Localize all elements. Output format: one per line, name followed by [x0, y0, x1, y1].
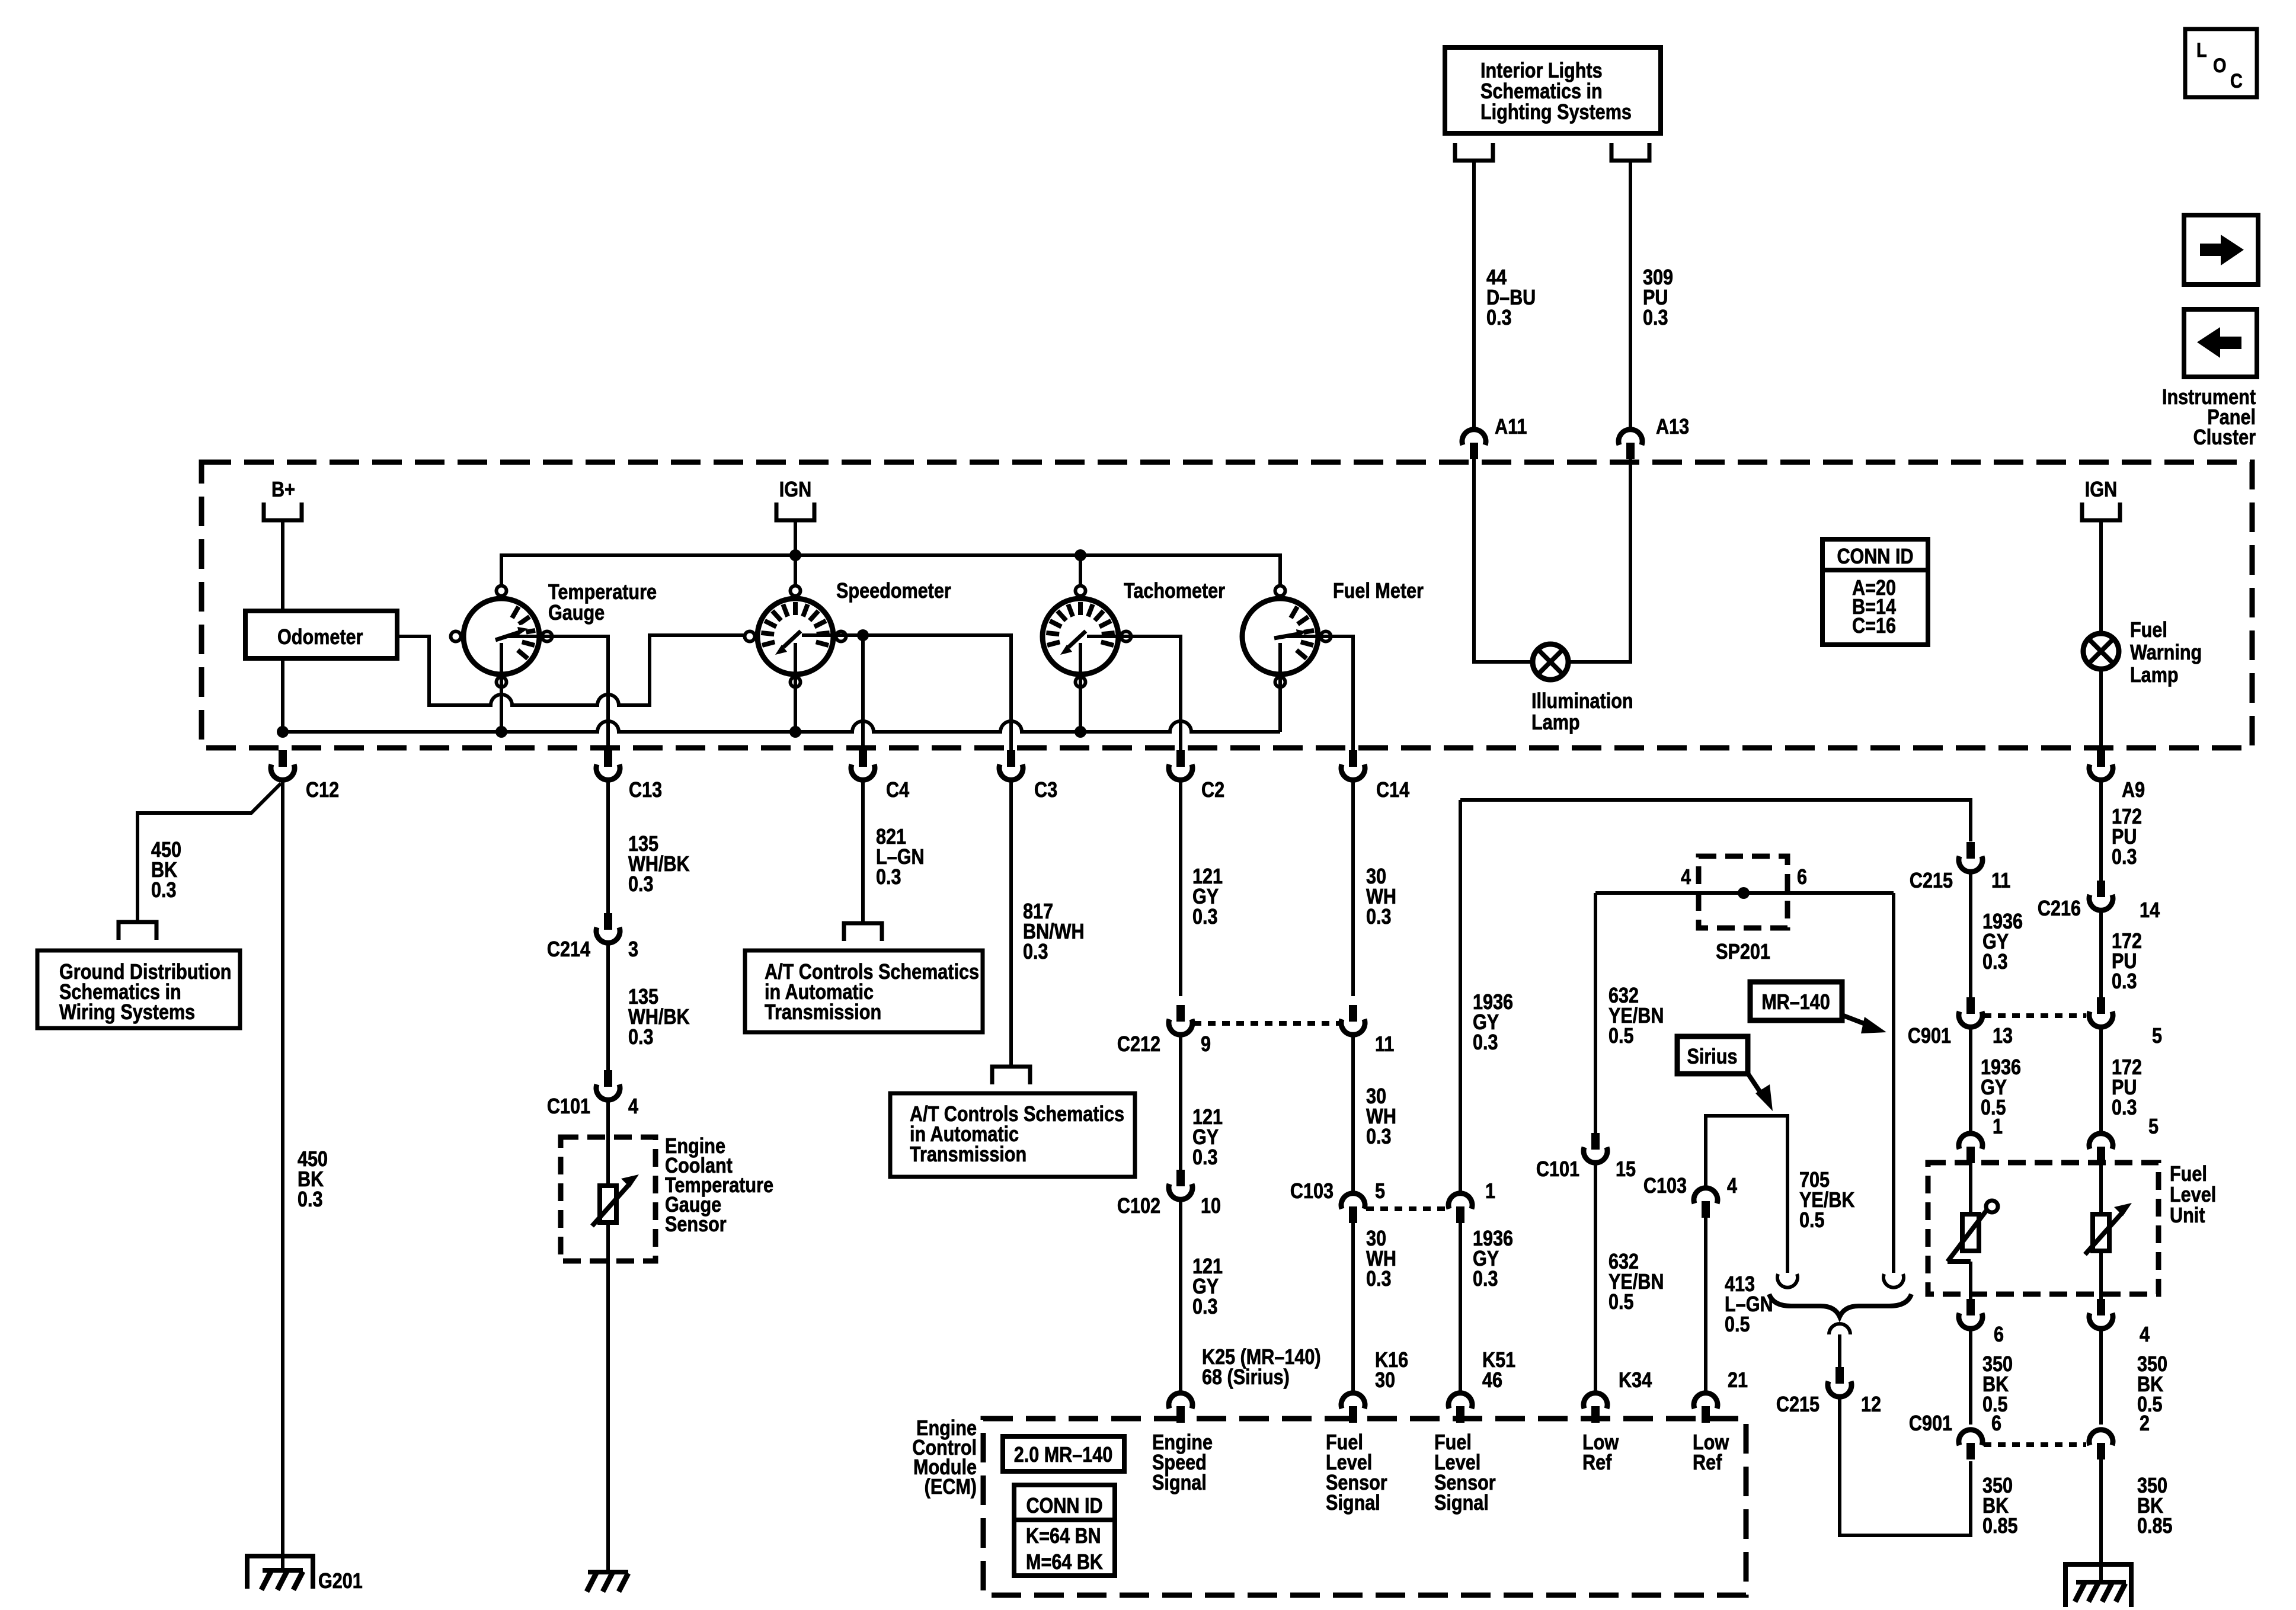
svg-text:Lamp: Lamp [1531, 711, 1580, 735]
svg-text:0.3: 0.3 [1366, 1267, 1392, 1291]
label Fuel Level Unit [2170, 1163, 2216, 1228]
svg-text:G201: G201 [318, 1570, 363, 1593]
label Fuel Level Sensor Signal (K51) [1434, 1431, 1496, 1515]
LOC legend box [2185, 29, 2257, 97]
wire SP201 pin 4 branch to C101 pin 15 [1594, 893, 1597, 1133]
label 135 WH/BK 0.3 (upper) [628, 833, 690, 897]
label 30 WH 0.3 (upper) [1366, 865, 1396, 929]
box A/T Controls Schematics in Automatic Transmission (1) [745, 950, 983, 1032]
svg-text:21: 21 [1728, 1369, 1748, 1393]
label 1936 GY 0.5 [1981, 1056, 2021, 1120]
speedometer [745, 586, 846, 687]
svg-text:0.3: 0.3 [1192, 1146, 1218, 1170]
svg-text:46: 46 [1482, 1369, 1502, 1393]
svg-text:SP201: SP201 [1716, 940, 1770, 964]
svg-text:A11: A11 [1495, 415, 1527, 439]
svg-text:Ref: Ref [1582, 1451, 1612, 1475]
wire coolant sensor to ground [606, 1222, 610, 1572]
svg-text:Fuel: Fuel [2130, 619, 2167, 642]
svg-text:A9: A9 [2122, 779, 2145, 802]
connector C103 pin 4 [1643, 1174, 1738, 1218]
wire fuel meter right terminal to C14 [1287, 636, 1353, 750]
label 350 BK 0.5 (right) [2137, 1353, 2167, 1417]
label 705 YE/BK 0.5 [1799, 1169, 1854, 1233]
connector C13 [596, 750, 662, 802]
label 1936 GY 0.3 (lower) [1473, 1227, 1513, 1291]
wire tachometer bottom to bus [1079, 643, 1082, 732]
svg-text:0.3: 0.3 [1486, 306, 1512, 330]
wire SP201 horizontal (pin4 to pin6 branches) [1595, 887, 1894, 899]
connector C216 pin 14 [2038, 881, 2160, 923]
wire 11 to C103 pin 5 [1351, 1036, 1355, 1192]
svg-text:0.3: 0.3 [1982, 950, 2008, 974]
ECM pin K34 [1584, 1393, 1607, 1423]
svg-text:Signal: Signal [1152, 1471, 1207, 1495]
offpage stub left under Interior Lights box [1455, 143, 1493, 161]
svg-text:Lamp: Lamp [2130, 664, 2179, 687]
label 172 PU 0.3 (C901-5 run) [2112, 1056, 2142, 1120]
wire IGN bus to tachometer top [1079, 555, 1082, 584]
svg-text:A13: A13 [1656, 415, 1689, 439]
ECM pin K16 [1341, 1393, 1365, 1423]
connector C102 pin 10 [1117, 1170, 1221, 1218]
wire C103 pin 4 to ECM pin 21 [1704, 1218, 1707, 1392]
svg-text:IGN: IGN [2085, 478, 2117, 502]
svg-text:1: 1 [1485, 1180, 1495, 1204]
label 632 YE/BN 0.5 (upper) [1609, 984, 1664, 1048]
connector C2 [1169, 750, 1224, 802]
svg-text:(ECM): (ECM) [925, 1475, 977, 1499]
svg-text:6: 6 [1994, 1323, 2004, 1347]
connector C901 pin 6 [1909, 1412, 2001, 1459]
connector A11 [1462, 415, 1527, 459]
coolant temperature sensor element [592, 1174, 639, 1226]
svg-text:6: 6 [1797, 866, 1807, 889]
splice SP201 (dashed box) [1699, 856, 1787, 928]
label Low Ref (K34) [1582, 1431, 1619, 1475]
label K25 (MR-140) 68 (Sirius) [1202, 1346, 1321, 1390]
svg-text:C215: C215 [1910, 869, 1953, 893]
svg-text:0.3: 0.3 [628, 873, 654, 897]
wire C12 to G201 ground [281, 782, 284, 1570]
svg-text:C102: C102 [1117, 1195, 1160, 1218]
svg-text:MR–140: MR–140 [1761, 991, 1830, 1014]
wire into fuel level unit (left) [1969, 1163, 1972, 1214]
svg-text:9: 9 [1201, 1033, 1211, 1057]
wire sender left to pin 6 [1969, 1262, 1972, 1300]
label 450 BK 0.3 (branch) [151, 838, 181, 902]
svg-text:0.5: 0.5 [1609, 1291, 1634, 1314]
svg-text:Fuel Meter: Fuel Meter [1333, 580, 1424, 603]
svg-text:Wiring Systems: Wiring Systems [59, 1001, 195, 1025]
svg-text:2.0 MR–140: 2.0 MR–140 [1014, 1443, 1113, 1467]
svg-text:C215: C215 [1776, 1393, 1819, 1417]
connector C3 [999, 750, 1057, 802]
connector C901 pin 13 [1908, 997, 2013, 1048]
svg-text:0.3: 0.3 [2112, 846, 2137, 869]
right arrow box [2184, 215, 2258, 284]
wire SP201 pin 6 branch down [1892, 893, 1895, 1273]
connector C215 pin 12 [1776, 1367, 1881, 1417]
svg-text:C103: C103 [1290, 1180, 1334, 1204]
svg-text:0.3: 0.3 [876, 866, 901, 889]
ECM pin K51 [1448, 1393, 1472, 1423]
label K34 [1619, 1369, 1652, 1393]
label 817 BN/WH 0.3 [1023, 900, 1085, 964]
svg-text:B+: B+ [271, 478, 295, 502]
svg-text:0.5: 0.5 [1725, 1313, 1750, 1337]
svg-text:Gauge: Gauge [548, 601, 605, 625]
callout box MR-140 [1750, 982, 1886, 1033]
svg-text:0.3: 0.3 [298, 1188, 323, 1212]
svg-text:Temperature: Temperature [548, 581, 657, 604]
wire top horizontal to C103 pin 1 [1459, 800, 1462, 1192]
label Tachometer [1124, 580, 1225, 603]
box A/T Controls Schematics in Automatic Transmission (2) [890, 1093, 1135, 1177]
wire C13 to C214 [606, 782, 610, 913]
fuel meter [1242, 586, 1331, 687]
offpage stub right under Interior Lights box [1611, 143, 1649, 161]
wire C901-13 to fuel level unit pin [1969, 1029, 1972, 1132]
connector A13 [1619, 415, 1689, 459]
wire C216 to C901-5 [2099, 912, 2103, 997]
svg-text:0.5: 0.5 [1799, 1209, 1825, 1233]
wire temperature gauge right terminal to C13 [508, 636, 608, 750]
wire B+ to odometer and bus [281, 520, 284, 732]
svg-text:1: 1 [1993, 1115, 2003, 1139]
svg-text:Sirius: Sirius [1687, 1045, 1738, 1069]
wire C212 to C102 [1179, 1036, 1182, 1170]
svg-text:C=16: C=16 [1852, 614, 1896, 638]
svg-text:4: 4 [2140, 1323, 2150, 1347]
svg-text:0.3: 0.3 [1643, 306, 1668, 330]
splice wire end hook (705 lead) [1777, 1274, 1798, 1288]
offpage stub above A/T box 1 [844, 923, 882, 941]
dotted mate line C103 5-1 [1366, 1206, 1448, 1211]
label 172 PU 0.3 (A9 run) [2112, 805, 2142, 869]
illumination lamp [1533, 644, 1568, 680]
wire sender right to pin 4 [2099, 1251, 2103, 1300]
wire tachometer right terminal to C2 [1087, 636, 1181, 750]
svg-text:Ref: Ref [1693, 1451, 1722, 1475]
svg-text:0.3: 0.3 [1473, 1267, 1498, 1291]
wire A9 to C216 [2099, 782, 2103, 881]
wire speedometer right terminal to C4/C3 branch [802, 629, 1011, 750]
svg-text:C214: C214 [547, 938, 591, 962]
label 450 BK 0.3 (G201 run) [298, 1148, 328, 1212]
ground G201 [247, 1556, 363, 1593]
svg-text:3: 3 [628, 938, 638, 962]
svg-text:13: 13 [1993, 1025, 2013, 1048]
svg-text:C103: C103 [1643, 1174, 1687, 1198]
svg-text:0.3: 0.3 [1366, 1125, 1392, 1149]
svg-text:10: 10 [1201, 1195, 1221, 1218]
svg-text:Tachometer: Tachometer [1124, 580, 1225, 603]
svg-text:2: 2 [2140, 1412, 2150, 1436]
svg-text:0.3: 0.3 [2112, 1096, 2137, 1120]
svg-text:0.85: 0.85 [2137, 1515, 2173, 1538]
connector C101 pin 15 [1536, 1133, 1636, 1182]
label 350 BK 0.85 (right) [2137, 1474, 2173, 1538]
svg-text:C: C [2230, 69, 2243, 92]
svg-text:Speedometer: Speedometer [836, 580, 951, 603]
label 632 YE/BN 0.5 (lower) [1609, 1250, 1664, 1314]
wire C12 branch to ground distribution stub [137, 783, 281, 922]
svg-text:0.3: 0.3 [1473, 1031, 1498, 1055]
connector C901 pin 2 [2089, 1412, 2150, 1459]
wire C215-11 to C901-13 [1969, 873, 1972, 997]
label 821 L-GN 0.3 [876, 825, 925, 889]
wire fuel meter bottom to bus [1278, 643, 1282, 732]
svg-text:Sensor: Sensor [665, 1213, 727, 1237]
svg-text:IGN: IGN [779, 478, 811, 502]
svg-text:C101: C101 [547, 1095, 590, 1119]
wire fuel level signal horizontal run [1460, 800, 1971, 841]
label pin 21 [1728, 1369, 1748, 1393]
ECM CONN ID table [1014, 1485, 1115, 1576]
label Fuel Level Sensor Signal (K16) [1326, 1431, 1387, 1515]
svg-text:0.3: 0.3 [2112, 970, 2137, 994]
svg-text:0.3: 0.3 [151, 879, 177, 902]
svg-text:11: 11 [1375, 1033, 1394, 1057]
svg-text:C2: C2 [1201, 779, 1224, 802]
wire C3 to A/T stub 2 [1009, 782, 1013, 1067]
label fuel level unit pin 5 [2148, 1115, 2159, 1139]
box Ground Distribution Schematics in Wiring Systems [37, 950, 240, 1028]
svg-text:Warning: Warning [2130, 641, 2202, 665]
label 44 D-BU 0.3 [1486, 266, 1536, 330]
odometer box [245, 611, 397, 658]
svg-text:0.3: 0.3 [1192, 1295, 1218, 1319]
label Low Ref (21) [1693, 1431, 1729, 1475]
splice lead hook to C215-12 [1829, 1324, 1850, 1368]
label 121 GY 0.3 (C212-C102) [1192, 1106, 1223, 1170]
svg-text:O: O [2213, 54, 2226, 77]
svg-text:15: 15 [1616, 1158, 1636, 1182]
svg-text:C901: C901 [1908, 1025, 1951, 1048]
svg-text:Fuel: Fuel [2170, 1163, 2207, 1186]
wire fuel warning lamp to A9 [2099, 668, 2103, 750]
label K16 30 [1375, 1349, 1408, 1393]
connector A9 [2089, 750, 2145, 802]
ECM pin K25 [1169, 1393, 1192, 1423]
wire pin6 to C901-6 [1969, 1330, 1972, 1425]
svg-text:C3: C3 [1034, 779, 1057, 802]
svg-text:12: 12 [1861, 1393, 1881, 1417]
engine coolant temperature gauge sensor box (dashed) [561, 1137, 655, 1261]
power feed IGN (right) [2082, 478, 2120, 520]
label Illumination Lamp [1531, 690, 1633, 735]
wire C14 to C212 pin 11 [1351, 782, 1355, 996]
cluster CONN ID table [1822, 539, 1928, 645]
label 172 PU 0.3 (C216 run) [2112, 930, 2142, 994]
label 135 WH/BK 0.3 (lower) [628, 985, 690, 1049]
svg-text:C216: C216 [2038, 897, 2081, 921]
wire 44 D-BU from Interior Lights to A11 [1472, 161, 1476, 430]
connector C215 pin 11 [1910, 842, 2010, 893]
label Temperature Gauge [548, 581, 657, 625]
fuel warning lamp [2083, 633, 2119, 669]
svg-text:0.3: 0.3 [1023, 940, 1048, 964]
label 309 PU 0.3 [1643, 266, 1673, 330]
label Engine Coolant Temperature Gauge Sensor [665, 1135, 773, 1237]
svg-text:Lighting Systems: Lighting Systems [1480, 101, 1632, 124]
ground below C901 pin 2 [2065, 1564, 2131, 1607]
wire pin4 to C901-2 [2099, 1330, 2103, 1425]
svg-text:Transmission: Transmission [910, 1143, 1027, 1167]
instrument panel cluster boundary (dashed box) [202, 462, 2252, 748]
ground below coolant sensor [587, 1572, 628, 1592]
wire 1 to ECM K51 [1459, 1223, 1462, 1392]
label SP201 pin 4 [1681, 866, 1691, 889]
wire 309 PU from Interior Lights to A13 [1629, 161, 1632, 430]
svg-text:0.5: 0.5 [1609, 1025, 1634, 1048]
label Instrument Panel Cluster [2162, 386, 2256, 450]
svg-text:L: L [2196, 39, 2207, 62]
wire odometer to speedometer (hops temp-bottom and C13 wires) [397, 635, 745, 705]
fuel level sender element (right, with arrow) [2085, 1203, 2132, 1254]
wire C901-2 to ground [2099, 1459, 2103, 1582]
svg-text:Illumination: Illumination [1531, 690, 1633, 713]
wire C901-5 to fuel level unit [2099, 1029, 2103, 1132]
svg-text:30: 30 [1375, 1369, 1395, 1393]
callout box Sirius [1677, 1036, 1773, 1111]
wire IGN to fuel warning lamp [2099, 520, 2103, 635]
wire A11 to illumination lamp [1474, 459, 1534, 662]
label Fuel Warning Lamp [2130, 619, 2202, 687]
ECM pin 21 [1694, 1393, 1718, 1423]
svg-text:Interior Lights: Interior Lights [1480, 59, 1603, 83]
label 413 L-GN 0.5 [1725, 1273, 1773, 1337]
dotted mate line C212 9-11 [1194, 1021, 1340, 1026]
connector fuel level unit pin 6 (below box) [1959, 1299, 2004, 1347]
dotted mate line C901 13-5 [1984, 1013, 2086, 1018]
svg-text:68 (Sirius): 68 (Sirius) [1202, 1366, 1290, 1390]
svg-text:0.3: 0.3 [1192, 905, 1218, 929]
connector C4 [851, 750, 909, 802]
wire into fuel level unit (right) [2099, 1163, 2103, 1214]
svg-text:C4: C4 [886, 779, 909, 802]
svg-text:Signal: Signal [1434, 1491, 1489, 1515]
svg-text:Cluster: Cluster [2193, 426, 2256, 450]
svg-text:Unit: Unit [2170, 1204, 2205, 1228]
svg-text:0.3: 0.3 [1366, 905, 1392, 929]
label 350 BK 0.85 (left) [1982, 1474, 2018, 1538]
label Engine Speed Signal [1152, 1431, 1213, 1495]
svg-text:0.85: 0.85 [1982, 1515, 2018, 1538]
label 1936 GY 0.3 (upper) [1473, 991, 1513, 1055]
offpage stub above A/T box 2 [992, 1067, 1030, 1084]
wire C102 to ECM K25 [1179, 1201, 1182, 1392]
connector C12 [271, 750, 339, 802]
svg-text:11: 11 [1991, 869, 2010, 893]
splice underbrace [1769, 1294, 1911, 1317]
wire 5 to ECM K16 [1351, 1223, 1355, 1392]
svg-text:Transmission: Transmission [765, 1001, 881, 1025]
svg-text:C901: C901 [1909, 1412, 1952, 1436]
connector C214 pin 3 [547, 913, 638, 962]
wire illumination lamp to A13 [1567, 459, 1630, 662]
label 30 WH 0.3 (mid) [1366, 1085, 1396, 1149]
label K51 46 [1482, 1349, 1515, 1393]
dotted mate line C901 6-2 [1984, 1442, 2086, 1447]
label 121 GY 0.3 (C102-K25) [1192, 1255, 1223, 1319]
engine control module box (dashed) [983, 1419, 1746, 1595]
svg-text:4: 4 [1681, 866, 1691, 889]
svg-text:5: 5 [2152, 1025, 2162, 1048]
tachometer [1043, 586, 1131, 687]
fuel level unit box (dashed) [1928, 1163, 2159, 1294]
wire C2 to C212 [1179, 782, 1182, 996]
connector C103 pin 1 [1448, 1180, 1495, 1223]
label 350 BK 0.5 (left) [1982, 1353, 2013, 1417]
label SP201 [1716, 940, 1770, 964]
svg-text:0.3: 0.3 [628, 1026, 654, 1049]
label Speedometer [836, 580, 951, 603]
connector C101 pin 4 [547, 1070, 639, 1119]
gauge bus wire along cluster bottom [277, 721, 1280, 738]
connector fuel level unit pin 4 (below box) [2089, 1299, 2150, 1347]
svg-text:M=64 BK: M=64 BK [1026, 1551, 1103, 1574]
connector C14 [1341, 750, 1409, 802]
temperature gauge [451, 586, 552, 687]
svg-text:C14: C14 [1376, 779, 1409, 802]
connector fuel level unit pin 1 [1959, 1134, 1982, 1163]
power feed B+ [264, 478, 302, 520]
box Interior Lights Schematics in Lighting Systems [1445, 47, 1661, 133]
connector C103 pin 5 [1290, 1180, 1385, 1223]
svg-text:4: 4 [1727, 1174, 1737, 1198]
left arrow box [2184, 309, 2257, 377]
fuel level sender element (left, with wiper circle) [1948, 1201, 1998, 1262]
wire C215 pin 12 to C901 pin 6 run [1840, 1398, 1971, 1535]
wire speedometer bottom to bus [794, 643, 797, 732]
label fuel level unit pin 1 [1993, 1115, 2003, 1139]
connector C212 pin 9 [1117, 1005, 1211, 1057]
svg-text:6: 6 [1991, 1412, 2001, 1436]
wire IGN bus to speedometer top [794, 555, 797, 584]
svg-text:Level: Level [2170, 1183, 2216, 1207]
wire C101 pin 15 to ECM K34 [1594, 1164, 1597, 1392]
svg-text:K=64 BN: K=64 BN [1026, 1525, 1101, 1548]
connector fuel level unit pin 5 [2089, 1134, 2113, 1163]
connector C901 pin 5 [2089, 997, 2162, 1048]
splice wire end hook (SP201-6 lead) [1884, 1274, 1904, 1288]
label Engine Control Module (ECM) [912, 1417, 977, 1499]
svg-text:C13: C13 [629, 779, 662, 802]
power feed IGN (cluster) [776, 478, 814, 520]
svg-text:4: 4 [628, 1095, 638, 1119]
wire IGN feed to IGN bus [794, 520, 797, 555]
svg-text:CONN ID: CONN ID [1026, 1494, 1102, 1518]
offpage stub above ground distribution box [119, 922, 156, 940]
label 30 WH 0.3 (lower) [1366, 1227, 1396, 1291]
svg-text:14: 14 [2140, 899, 2160, 923]
wire C4 to A/T stub [861, 782, 865, 923]
connector C212 pin 11 [1341, 1005, 1394, 1057]
svg-text:C101: C101 [1536, 1158, 1579, 1182]
wire Sirius branch (inverted U) [1706, 1116, 1787, 1273]
IGN bus wire [501, 549, 1280, 584]
svg-text:Signal: Signal [1326, 1491, 1380, 1515]
svg-text:C12: C12 [306, 779, 339, 802]
wire C101 to coolant sensor [606, 1102, 610, 1186]
wire temperature gauge bottom to bus [500, 643, 503, 732]
svg-text:Schematics in: Schematics in [1480, 80, 1603, 104]
label SP201 pin 6 [1797, 866, 1807, 889]
box 2.0 MR-140 [1003, 1436, 1124, 1471]
svg-text:Odometer: Odometer [277, 626, 363, 649]
